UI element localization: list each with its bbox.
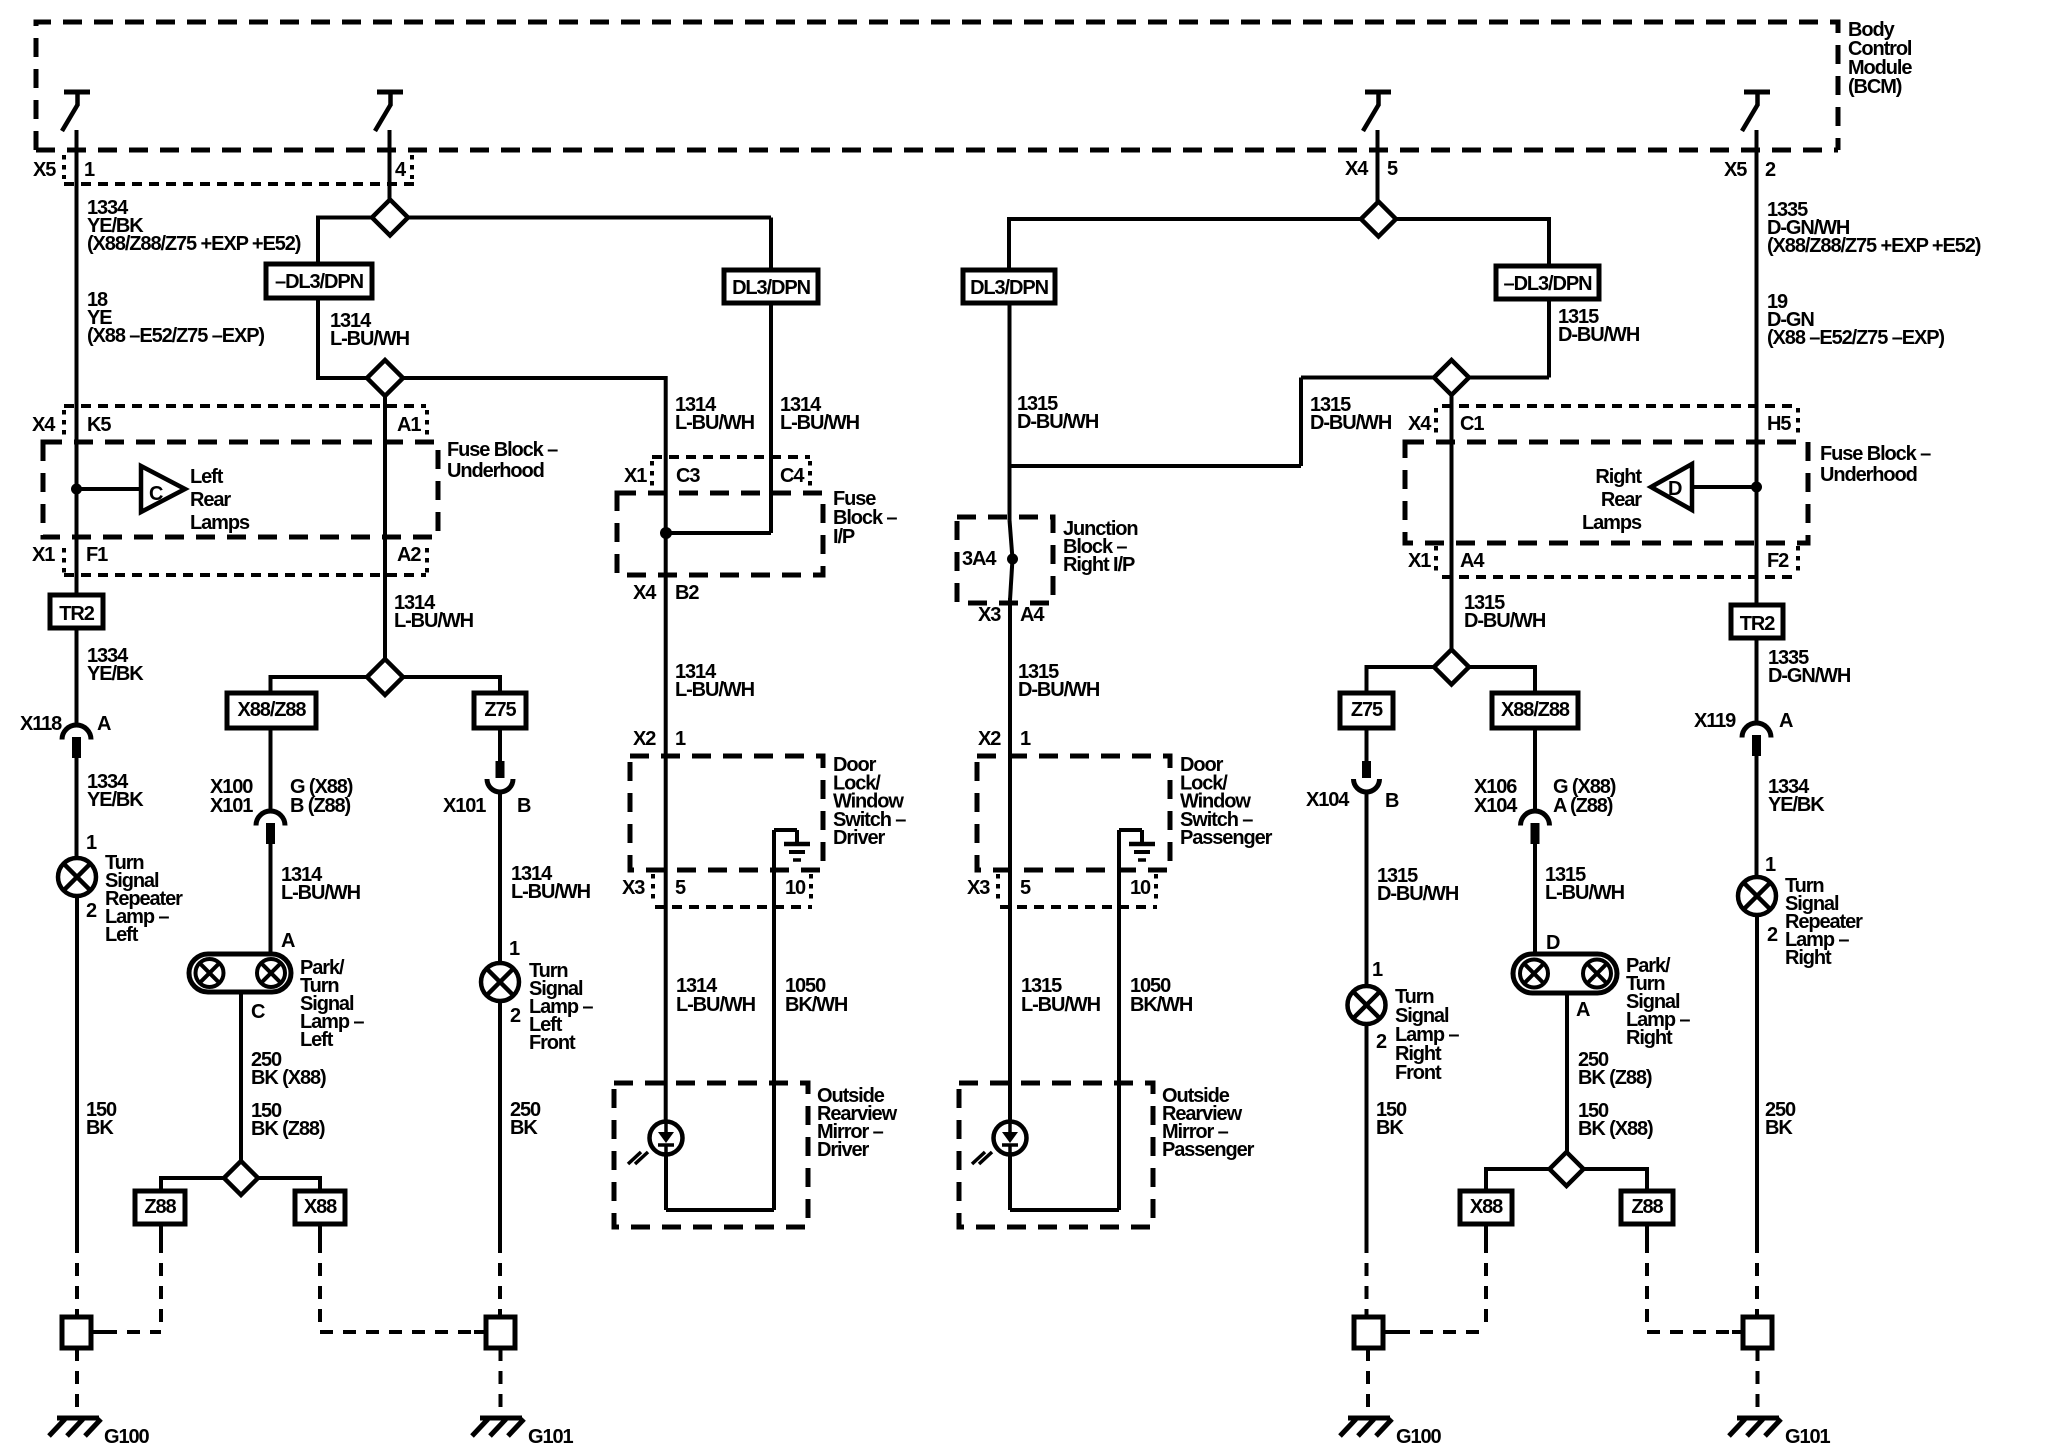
svg-text:D: D <box>1668 478 1682 500</box>
wire 1334 YE/BK from BCM X5-1 down to TR2 <box>75 130 79 595</box>
wire 250 BK right <box>1755 915 1759 1240</box>
svg-text:A: A <box>281 930 295 952</box>
separator A2 <box>425 548 429 574</box>
svg-text:Front: Front <box>529 1032 576 1054</box>
svg-text:D-BU/WH: D-BU/WH <box>1310 412 1392 434</box>
ground G100 (right) <box>1348 1416 1390 1421</box>
svg-text:L-BU/WH: L-BU/WH <box>1545 882 1625 904</box>
node: junction right rear feed <box>1751 482 1762 493</box>
dashed wire X88 right down <box>1484 1224 1488 1240</box>
wire 1334 YE/BK to right repeater <box>1755 755 1759 877</box>
wire S4 right arm to X88 <box>258 1176 320 1180</box>
separator X1 IP <box>650 461 654 487</box>
wire driver mirror return <box>664 1154 668 1210</box>
wire S1 right arm to DL3/DPN <box>408 216 771 220</box>
svg-text:5: 5 <box>1020 877 1031 899</box>
separator C4 IP <box>808 461 812 487</box>
connector row line X1 F1 A2 <box>64 573 426 577</box>
svg-text:D-BU/WH: D-BU/WH <box>1464 610 1546 632</box>
svg-text:X2: X2 <box>978 728 1001 750</box>
svg-text:X101: X101 <box>443 795 486 817</box>
separator X1 right row <box>1434 546 1438 572</box>
wire BCM X4-5 to splice diamond S5 <box>1376 130 1380 203</box>
svg-text:(X88 –E52/Z75 –EXP): (X88 –E52/Z75 –EXP) <box>1767 327 1944 349</box>
svg-text:1: 1 <box>84 159 95 181</box>
wire S4 left arm to Z88 <box>161 1176 224 1180</box>
wire S7 right arm to X88/Z88 right <box>1469 665 1535 669</box>
svg-text:X88/Z88: X88/Z88 <box>238 699 307 721</box>
lamp: Turn Signal Lamp - Left Front <box>481 963 519 1001</box>
dashed wire below G101 splice <box>499 1348 503 1415</box>
splice diamond S4 <box>224 1161 258 1195</box>
svg-text:Z75: Z75 <box>484 699 516 721</box>
svg-text:Rear: Rear <box>1601 489 1642 511</box>
separator A1 <box>425 410 429 436</box>
svg-text:X119: X119 <box>1694 710 1736 732</box>
svg-text:Left: Left <box>300 1029 334 1051</box>
svg-text:D-BU/WH: D-BU/WH <box>1018 679 1100 701</box>
svg-text:X118: X118 <box>20 713 62 735</box>
svg-text:Front: Front <box>1395 1062 1442 1084</box>
svg-text:L-BU/WH: L-BU/WH <box>780 412 860 434</box>
wire -DL3/DPN to S2 <box>316 298 320 380</box>
connector row line X1 A4 F2 <box>1442 575 1796 579</box>
module: Outside Rearview Mirror - Passenger dashed box <box>959 1083 1153 1227</box>
connector X104 pin B <box>1362 761 1371 778</box>
switch: BCM low-side driver, pin X4-5 <box>1365 90 1391 95</box>
svg-text:L-BU/WH: L-BU/WH <box>511 881 591 903</box>
svg-text:1: 1 <box>509 938 520 960</box>
wire X88/Z88 right to X106/X104 <box>1533 728 1537 811</box>
module: Fuse Block - I/P dashed box <box>617 493 823 575</box>
separator X3 passenger <box>996 874 1000 900</box>
svg-text:B (Z88): B (Z88) <box>290 795 351 817</box>
connector row line X3 passenger <box>1000 905 1157 909</box>
svg-text:–DL3/DPN: –DL3/DPN <box>1504 273 1593 295</box>
wire 250/150 BK from park lamp A <box>1565 993 1569 1152</box>
dashed wire Z88 to splice <box>159 1224 163 1240</box>
option box -DL3/DPN (left) <box>266 264 372 298</box>
svg-text:A2: A2 <box>397 544 421 566</box>
svg-text:A4: A4 <box>1460 550 1485 572</box>
svg-text:X101: X101 <box>210 795 253 817</box>
lamp: mirror turn signal LED driver <box>650 1122 683 1155</box>
node: junction to Left Rear Lamps feed <box>71 484 82 495</box>
wire Right Rear Lamps feed <box>1692 485 1757 489</box>
wire driver ground riser <box>772 830 776 907</box>
lamp: Turn Signal Repeater Lamp - Left <box>58 858 96 896</box>
wire S7 left arm to Z75 right <box>1367 665 1435 669</box>
svg-text:X5: X5 <box>33 159 56 181</box>
dashed wire splice to X88 right <box>1397 1330 1486 1334</box>
svg-text:Lamps: Lamps <box>190 512 250 534</box>
wire S8 right arm to Z88 right <box>1583 1167 1647 1171</box>
svg-text:X3: X3 <box>967 877 990 899</box>
connector row line X3 driver <box>655 905 812 909</box>
svg-text:DL3/DPN: DL3/DPN <box>732 277 811 299</box>
connector X101 pin B <box>496 761 505 778</box>
svg-text:Z88: Z88 <box>1631 1196 1663 1218</box>
connector X118 pin A <box>62 725 91 740</box>
lamp: Park/Turn Signal Lamp - Right <box>1513 954 1617 993</box>
svg-text:–DL3/DPN: –DL3/DPN <box>275 271 364 293</box>
module: Door Lock/Window Switch - Driver dashed box <box>630 756 823 870</box>
svg-text:A: A <box>1779 710 1793 732</box>
svg-text:(X88 –E52/Z75 –EXP): (X88 –E52/Z75 –EXP) <box>87 325 264 347</box>
svg-text:10: 10 <box>1130 877 1151 899</box>
svg-text:X4: X4 <box>633 582 657 604</box>
svg-text:X88: X88 <box>1470 1196 1503 1218</box>
stub from right G100 splice <box>1383 1330 1397 1334</box>
wire 1315 L-BU/WH to park lamp D <box>1533 842 1537 954</box>
separator 10 passenger <box>1154 874 1158 900</box>
svg-text:Driver: Driver <box>817 1139 870 1161</box>
wire 1315 D-BU/WH to RF lamp <box>1365 791 1369 986</box>
svg-text:DL3/DPN: DL3/DPN <box>970 277 1049 299</box>
svg-text:L-BU/WH: L-BU/WH <box>330 328 410 350</box>
takeout X88 (left) <box>295 1191 345 1224</box>
svg-text:3A4: 3A4 <box>962 548 997 570</box>
svg-text:2: 2 <box>510 1005 521 1027</box>
wire S2 right arm to C3 <box>403 376 666 380</box>
svg-text:L-BU/WH: L-BU/WH <box>675 412 755 434</box>
splice square G101 feed (left) <box>486 1317 515 1348</box>
svg-text:K5: K5 <box>87 414 111 436</box>
svg-text:X1: X1 <box>1408 550 1431 572</box>
svg-text:G100: G100 <box>104 1426 150 1448</box>
svg-text:X1: X1 <box>624 465 647 487</box>
svg-text:1: 1 <box>86 832 97 854</box>
wire 250/150 BK from lamp C <box>239 992 243 1161</box>
svg-text:C: C <box>251 1001 265 1023</box>
ground G100 (left) <box>57 1416 99 1421</box>
svg-text:(X88/Z88/Z75 +EXP +E52): (X88/Z88/Z75 +EXP +E52) <box>1767 235 1981 257</box>
svg-text:1: 1 <box>1372 959 1383 981</box>
svg-text:Passenger: Passenger <box>1180 827 1273 849</box>
splice diamond S1 <box>372 200 408 236</box>
wire Z75 to X101 <box>498 728 502 761</box>
svg-text:Left: Left <box>190 466 224 488</box>
svg-text:G101: G101 <box>1785 1426 1831 1448</box>
stub into G101 splice <box>474 1330 487 1334</box>
svg-text:X88: X88 <box>304 1196 337 1218</box>
svg-text:B: B <box>1385 790 1399 812</box>
svg-text:Z75: Z75 <box>1351 699 1383 721</box>
splice diamond S2 <box>367 360 403 396</box>
lamp: Turn Signal Lamp - Right Front <box>1348 986 1386 1024</box>
svg-text:A1: A1 <box>397 414 421 436</box>
switch: BCM low-side driver, pin X5-4 <box>377 90 403 95</box>
lamp: mirror turn signal LED passenger <box>994 1122 1027 1155</box>
wire passenger switch pin 5 through box <box>1008 756 1012 1122</box>
dashed wire below right G101 splice <box>1756 1348 1760 1415</box>
svg-text:H5: H5 <box>1767 413 1791 435</box>
wire S6 down through right fuse block <box>1450 395 1454 650</box>
svg-text:Fuse Block –: Fuse Block – <box>1820 443 1931 465</box>
connector X106/X104 <box>1521 811 1550 826</box>
svg-text:2: 2 <box>1767 924 1778 946</box>
svg-text:Right: Right <box>1626 1027 1673 1049</box>
svg-text:TR2: TR2 <box>59 603 94 625</box>
wire 1314 to park/turn lamp A <box>269 842 273 954</box>
splice diamond S3 <box>367 659 403 695</box>
ground G101 (left) <box>480 1416 522 1421</box>
separator X4 right row <box>1434 408 1438 434</box>
lamp: Park/Turn Signal Lamp - Left <box>189 954 291 992</box>
module: Fuse Block - Underhood (right) dashed box <box>1405 442 1808 543</box>
svg-text:C4: C4 <box>780 465 805 487</box>
wire 150 BK <box>75 896 79 1240</box>
svg-text:X104: X104 <box>1474 795 1518 817</box>
wire 1314 L-BU/WH to LF lamp <box>498 791 502 963</box>
wire passenger ground riser <box>1117 830 1121 907</box>
svg-text:2: 2 <box>86 900 97 922</box>
dashed wire X88 to G101 splice <box>318 1224 322 1240</box>
svg-text:BK (X88): BK (X88) <box>251 1067 326 1089</box>
dashed wire RF to G100 splice <box>1365 1240 1369 1317</box>
svg-text:YE/BK: YE/BK <box>1768 794 1825 816</box>
splice diamond S8 <box>1550 1152 1584 1186</box>
svg-text:Right I/P: Right I/P <box>1063 554 1135 576</box>
svg-text:F1: F1 <box>86 544 108 566</box>
wire driver switch pin 5 through box <box>664 756 668 1122</box>
option box -DL3/DPN (right) <box>1496 266 1599 299</box>
svg-text:C1: C1 <box>1460 413 1484 435</box>
svg-text:BK/WH: BK/WH <box>785 994 848 1016</box>
separator pin 4 <box>410 155 414 179</box>
module: Junction Block - Right I/P dashed box <box>957 517 1053 603</box>
svg-text:L-BU/WH: L-BU/WH <box>675 679 755 701</box>
svg-text:B2: B2 <box>675 582 699 604</box>
stub from splice <box>91 1330 104 1334</box>
switch: BCM low-side driver, pin X5-1 <box>64 90 90 95</box>
symbol: Left Rear Lamps arrow C <box>141 466 185 512</box>
svg-text:5: 5 <box>675 877 686 899</box>
wire S5 right arm to -DL3/DPN (right) <box>1396 217 1549 221</box>
svg-text:Left: Left <box>105 924 139 946</box>
dashed wire to G101 splice <box>498 1240 502 1317</box>
svg-text:X5: X5 <box>1724 159 1747 181</box>
wire 1315 D-BU/WH down to junction block <box>1008 303 1012 520</box>
wire branch to right-side network <box>1010 464 1302 468</box>
wire -DL3/DPN right to S6 <box>1547 299 1551 378</box>
svg-text:Driver: Driver <box>833 827 886 849</box>
svg-text:X2: X2 <box>633 728 656 750</box>
wire TR2 right to X119 <box>1755 638 1759 723</box>
node: 3A4 terminal <box>1007 554 1018 565</box>
dashed wire below splice <box>75 1348 79 1415</box>
wire DL3/DPN drop to C4 <box>769 218 773 271</box>
connector row line X1 C3 C4 <box>652 455 810 459</box>
dashed wire below right G100 splice <box>1366 1348 1370 1415</box>
svg-text:BK (X88): BK (X88) <box>1578 1118 1653 1140</box>
svg-text:D-BU/WH: D-BU/WH <box>1017 411 1099 433</box>
svg-text:BK: BK <box>86 1117 114 1139</box>
svg-text:D-GN/WH: D-GN/WH <box>1768 665 1851 687</box>
wire S2 down through fuse block A1-A2 <box>383 396 387 659</box>
takeout TR2 (right) <box>1731 605 1783 638</box>
takeout Z75 (left) <box>474 693 526 728</box>
svg-text:1: 1 <box>1020 728 1031 750</box>
svg-text:I/P: I/P <box>833 526 855 548</box>
svg-text:Right: Right <box>1595 466 1642 488</box>
svg-text:L-BU/WH: L-BU/WH <box>281 882 361 904</box>
svg-text:X88/Z88: X88/Z88 <box>1501 699 1570 721</box>
svg-text:BK: BK <box>1765 1117 1793 1139</box>
module: Outside Rearview Mirror - Driver dashed box <box>614 1083 808 1227</box>
wire 250 BK LF <box>498 1001 502 1240</box>
wire X88/Z88 to X100/X101 <box>269 728 273 811</box>
wire S5 left arm to DL3/DPN (mid-right) <box>1009 217 1361 221</box>
svg-text:YE/BK: YE/BK <box>87 789 144 811</box>
svg-text:5: 5 <box>1387 158 1398 180</box>
splice diamond S6 <box>1434 360 1469 395</box>
stub into right G101 splice <box>1732 1330 1744 1334</box>
svg-text:F2: F2 <box>1767 550 1789 572</box>
svg-text:D-BU/WH: D-BU/WH <box>1377 883 1459 905</box>
takeout X88 (right) <box>1460 1191 1512 1224</box>
splice square G100 feed <box>62 1317 91 1348</box>
svg-text:L-BU/WH: L-BU/WH <box>1021 994 1101 1016</box>
wire passenger mirror return <box>1008 1154 1012 1210</box>
svg-text:Passenger: Passenger <box>1162 1139 1255 1161</box>
svg-text:X3: X3 <box>622 877 645 899</box>
svg-text:Fuse Block –: Fuse Block – <box>447 439 558 461</box>
splice diamond S5 <box>1361 202 1396 237</box>
takeout Z75 (right) <box>1340 693 1393 728</box>
svg-text:1: 1 <box>1765 854 1776 876</box>
svg-text:Lamps: Lamps <box>1582 512 1642 534</box>
takeout Z88 (left) <box>135 1191 185 1224</box>
takeout TR2 (left) <box>50 595 103 628</box>
svg-text:L-BU/WH: L-BU/WH <box>676 994 756 1016</box>
wire 1334 YE/BK to repeater lamp <box>75 758 79 858</box>
separator F2 <box>1796 546 1800 572</box>
svg-text:BK (Z88): BK (Z88) <box>1578 1067 1652 1089</box>
symbol: Right Rear Lamps arrow D <box>1651 464 1692 510</box>
svg-text:X4: X4 <box>32 414 56 436</box>
svg-text:1: 1 <box>675 728 686 750</box>
separator 10 driver <box>809 874 813 900</box>
svg-text:(X88/Z88/Z75 +EXP +E52): (X88/Z88/Z75 +EXP +E52) <box>87 233 301 255</box>
svg-text:A: A <box>97 713 111 735</box>
svg-text:Right: Right <box>1785 947 1832 969</box>
splice square G100 feed (right) <box>1354 1317 1383 1348</box>
separator X3 driver <box>651 874 655 900</box>
svg-text:C: C <box>149 483 163 505</box>
option box DL3/DPN (mid-right) <box>963 270 1055 303</box>
wire from BCM X5-4 to splice diamond <box>388 130 392 200</box>
svg-text:Underhood: Underhood <box>1820 464 1917 486</box>
wire 150 BK RF <box>1365 1024 1369 1240</box>
svg-text:D: D <box>1546 932 1560 954</box>
separator X1 row <box>62 548 66 574</box>
svg-text:L-BU/WH: L-BU/WH <box>394 610 474 632</box>
splice square G101 feed (right) <box>1743 1317 1772 1348</box>
svg-text:BK: BK <box>510 1117 538 1139</box>
node: C3/C4 junction <box>660 527 672 539</box>
option box DL3/DPN (mid-left) <box>724 270 818 303</box>
svg-text:BK: BK <box>1376 1117 1404 1139</box>
dashed wire splice to Z88 branch <box>104 1330 161 1334</box>
takeout X88/Z88 (right) <box>1492 693 1578 728</box>
switch: BCM low-side driver, pin X5-2 <box>1744 90 1770 95</box>
wire to Left Rear Lamps triangle <box>77 487 142 491</box>
svg-text:X4: X4 <box>1408 413 1432 435</box>
splice diamond S7 <box>1434 650 1469 685</box>
wire 150 BK dashed to splice <box>75 1240 79 1317</box>
connector row line X4 C1 H5 <box>1442 404 1796 408</box>
wire S3 right arm to Z75 <box>403 675 500 679</box>
dashed wire Z88 right to G101 splice <box>1645 1224 1649 1240</box>
svg-text:10: 10 <box>785 877 806 899</box>
module: Fuse Block - Underhood (left) dashed box <box>43 442 438 537</box>
svg-text:A: A <box>1576 999 1590 1021</box>
separator X5 <box>62 155 66 179</box>
module: Body Control Module (BCM) dashed box <box>36 22 1838 150</box>
wire Z75 right to X104 <box>1365 728 1369 761</box>
ground G101 (right) <box>1737 1416 1779 1421</box>
takeout X88/Z88 (left) <box>227 693 316 728</box>
wire S1 left arm to -DL3/DPN <box>318 216 372 220</box>
svg-text:2: 2 <box>1765 159 1776 181</box>
connector row line X5 pin 1/4 <box>64 182 415 186</box>
svg-text:Underhood: Underhood <box>447 460 544 482</box>
module: Door Lock/Window Switch - Passenger dashed box <box>977 756 1170 870</box>
svg-text:C3: C3 <box>676 465 700 487</box>
wire 1334 YE/BK TR2 to X118 <box>75 628 79 727</box>
svg-text:A (Z88): A (Z88) <box>1553 795 1613 817</box>
svg-text:X4: X4 <box>1345 158 1369 180</box>
svg-text:X3: X3 <box>978 604 1001 626</box>
svg-text:X104: X104 <box>1306 789 1350 811</box>
wire 1335 D-GN/WH from BCM X5-2 <box>1755 130 1759 605</box>
separator H5 <box>1796 408 1800 434</box>
ground: internal, driver switch <box>784 842 810 847</box>
svg-text:TR2: TR2 <box>1740 613 1775 635</box>
wire S3 left arm to X88/Z88 <box>271 675 368 679</box>
svg-text:BK (Z88): BK (Z88) <box>251 1118 325 1140</box>
svg-text:A4: A4 <box>1020 604 1045 626</box>
svg-text:G101: G101 <box>528 1426 574 1448</box>
svg-text:YE/BK: YE/BK <box>87 663 144 685</box>
svg-text:B: B <box>517 795 531 817</box>
svg-text:(BCM): (BCM) <box>1848 76 1902 98</box>
svg-text:Z88: Z88 <box>144 1196 176 1218</box>
wire C4 into fuse block I/P <box>769 303 773 533</box>
connector row line X4 K5 A1 <box>64 404 426 408</box>
svg-text:D-BU/WH: D-BU/WH <box>1558 324 1640 346</box>
separator X4 row <box>62 410 66 436</box>
connector X119 pin A <box>1742 723 1771 738</box>
svg-text:Rear: Rear <box>190 489 231 511</box>
connector X100/X101 <box>256 811 285 826</box>
takeout Z88 (right) <box>1621 1191 1673 1224</box>
dashed wire to right G101 splice <box>1755 1240 1759 1317</box>
lamp: Turn Signal Repeater Lamp - Right <box>1738 877 1776 915</box>
wire S8 left arm to X88 right <box>1486 1167 1550 1171</box>
svg-text:X1: X1 <box>32 544 55 566</box>
svg-text:BK/WH: BK/WH <box>1130 994 1193 1016</box>
svg-text:2: 2 <box>1376 1031 1387 1053</box>
svg-text:G100: G100 <box>1396 1426 1442 1448</box>
ground: internal, passenger switch <box>1129 842 1155 847</box>
